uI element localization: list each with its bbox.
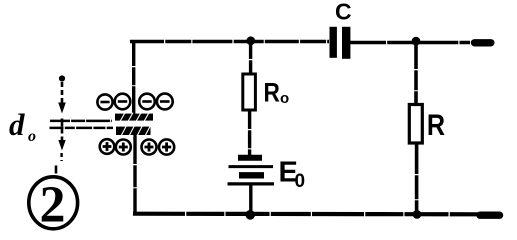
- svg-text:2: 2: [40, 177, 66, 234]
- label C: [335, 0, 352, 25]
- label E0: [279, 157, 306, 193]
- svg-text:R: R: [264, 78, 280, 108]
- positive charges row: [100, 139, 175, 154]
- capacitor d0 plate bottom (thin): [50, 127, 114, 130]
- resistor Ro: [243, 74, 256, 110]
- node junction bottom right: [413, 210, 422, 219]
- wire bottom horizontal: [133, 212, 479, 217]
- wire middle vertical lower: [249, 185, 252, 214]
- svg-text:R: R: [427, 108, 445, 142]
- battery E0: [228, 158, 275, 184]
- resistor R: [409, 105, 422, 144]
- capacitor d0 plate top (thin): [50, 120, 112, 123]
- svg-text:C: C: [335, 0, 352, 25]
- label d0: [9, 107, 36, 145]
- wire top-right horizontal: [350, 41, 470, 44]
- output terminal top: [475, 39, 491, 46]
- svg-text:d: d: [9, 107, 25, 142]
- svg-text:0: 0: [295, 171, 306, 192]
- displacement arrow bottom: [58, 119, 65, 162]
- displacement arrow top: [58, 75, 66, 113]
- capacitor plate bottom (hatched, charged): [116, 126, 151, 136]
- output terminal bottom: [480, 211, 500, 218]
- wire left vertical lower: [133, 134, 136, 214]
- label Ro: [264, 78, 290, 108]
- svg-text:o: o: [280, 90, 289, 107]
- wire right vertical lower: [415, 142, 419, 214]
- figure number tick: [55, 166, 58, 174]
- svg-text:o: o: [28, 128, 36, 145]
- node junction top right: [412, 37, 421, 46]
- wire middle vertical center: [248, 109, 251, 156]
- wire top-left horizontal: [130, 40, 329, 43]
- wire right vertical upper: [414, 41, 418, 105]
- label R: [427, 108, 445, 142]
- figure number 2 (circled): [29, 177, 78, 234]
- node junction top middle: [246, 36, 255, 45]
- negative charges row: [97, 94, 172, 110]
- capacitor C: [330, 27, 351, 59]
- node junction bottom middle: [245, 210, 255, 220]
- capacitor plate top (hatched, charged): [115, 113, 153, 122]
- wire left vertical upper: [132, 40, 135, 114]
- wire middle vertical upper: [249, 41, 252, 75]
